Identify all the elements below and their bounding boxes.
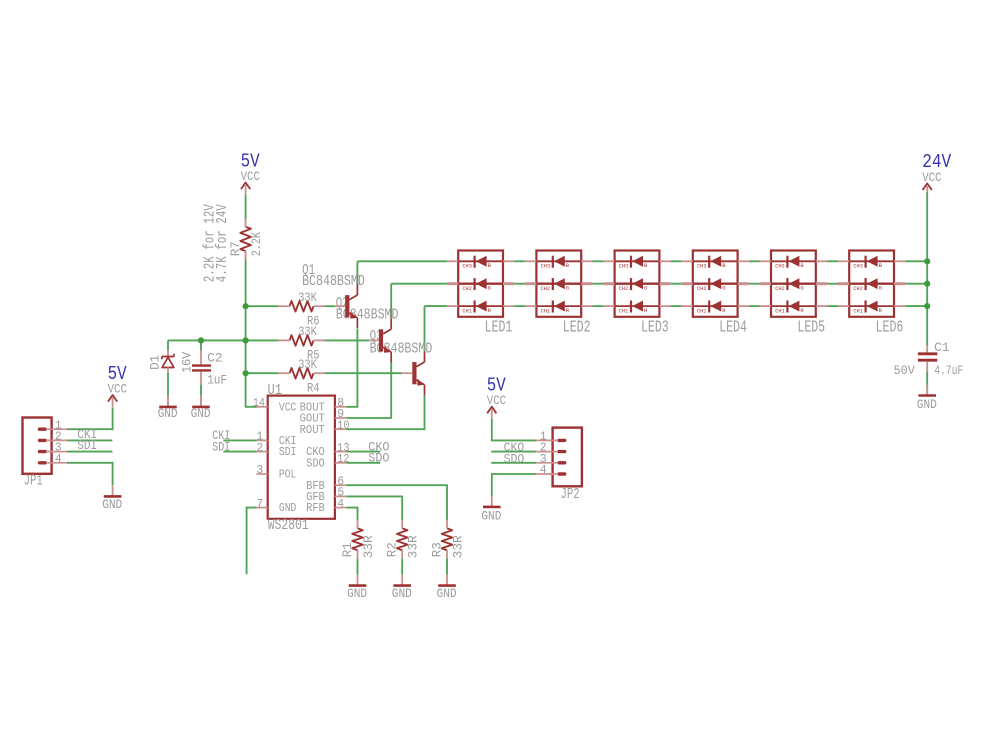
svg-text:C1: C1 [934, 340, 950, 355]
svg-text:R2: R2 [385, 542, 400, 557]
svg-text:CH1: CH1 [775, 307, 785, 314]
svg-text:7: 7 [256, 498, 263, 511]
svg-text:CH3: CH3 [853, 263, 863, 270]
svg-text:4.7uF: 4.7uF [934, 363, 963, 378]
svg-text:CH2: CH2 [462, 285, 472, 292]
svg-text:4: 4 [540, 464, 547, 477]
svg-text:16V: 16V [180, 351, 195, 373]
svg-text:3: 3 [256, 464, 263, 477]
svg-text:JP2: JP2 [561, 485, 580, 503]
svg-text:4: 4 [55, 453, 62, 466]
svg-text:LED5: LED5 [797, 318, 825, 337]
svg-text:U1: U1 [268, 381, 283, 399]
svg-text:R3: R3 [429, 542, 444, 557]
svg-text:33R: 33R [406, 535, 421, 558]
svg-text:CH1: CH1 [853, 307, 863, 314]
svg-text:GND: GND [437, 586, 457, 601]
svg-text:VCC: VCC [279, 400, 296, 414]
svg-text:33R: 33R [361, 535, 376, 558]
svg-text:CH2: CH2 [697, 285, 707, 292]
svg-text:CH1: CH1 [619, 307, 629, 314]
svg-text:LED6: LED6 [876, 318, 904, 337]
svg-text:GND: GND [481, 508, 501, 523]
svg-text:4: 4 [337, 498, 344, 511]
svg-text:CH3: CH3 [697, 263, 707, 270]
svg-text:CH1: CH1 [697, 307, 707, 314]
svg-text:33R: 33R [451, 535, 466, 558]
svg-text:2.2K: 2.2K [249, 232, 264, 256]
svg-text:SDO: SDO [306, 456, 325, 470]
svg-text:RFB: RFB [306, 501, 325, 515]
svg-text:CH3: CH3 [775, 263, 785, 270]
svg-text:SDI: SDI [212, 440, 230, 455]
svg-text:CH2: CH2 [541, 285, 551, 292]
svg-text:VCC: VCC [487, 393, 507, 408]
svg-text:CH1: CH1 [462, 307, 472, 314]
svg-text:50V: 50V [894, 363, 916, 378]
svg-text:GND: GND [917, 397, 937, 412]
svg-text:GND: GND [392, 586, 412, 601]
svg-text:WS2801: WS2801 [268, 516, 309, 534]
svg-text:VCC: VCC [108, 381, 128, 396]
svg-text:CH3: CH3 [462, 263, 472, 270]
svg-text:ROUT: ROUT [300, 423, 325, 437]
svg-text:SDO: SDO [368, 450, 389, 465]
svg-text:GND: GND [158, 406, 178, 421]
svg-text:CH3: CH3 [541, 263, 551, 270]
svg-text:4.7K for 24V: 4.7K for 24V [214, 204, 231, 282]
svg-text:SDI: SDI [279, 445, 296, 459]
svg-text:CH2: CH2 [619, 285, 629, 292]
svg-text:CH2: CH2 [853, 285, 863, 292]
svg-text:POL: POL [279, 468, 296, 482]
svg-text:1uF: 1uF [207, 373, 227, 388]
svg-text:BC848BSMD: BC848BSMD [302, 272, 365, 290]
svg-text:CH2: CH2 [775, 285, 785, 292]
svg-text:LED4: LED4 [719, 318, 747, 337]
svg-text:SDI: SDI [77, 438, 97, 453]
svg-text:33K: 33K [298, 357, 317, 372]
svg-text:LED1: LED1 [485, 318, 513, 337]
svg-text:GND: GND [347, 586, 367, 601]
svg-text:LED2: LED2 [563, 318, 591, 337]
svg-text:GND: GND [102, 497, 122, 512]
svg-text:LED3: LED3 [641, 318, 669, 337]
svg-text:R1: R1 [340, 542, 355, 557]
svg-text:VCC: VCC [241, 169, 261, 184]
svg-text:SDO: SDO [504, 452, 525, 467]
svg-text:12: 12 [337, 453, 349, 466]
svg-text:JP1: JP1 [24, 471, 43, 489]
svg-text:CH1: CH1 [541, 307, 551, 314]
svg-text:GND: GND [191, 406, 211, 421]
svg-text:33K: 33K [298, 324, 317, 339]
svg-text:C2: C2 [207, 350, 223, 365]
svg-text:14: 14 [253, 397, 265, 410]
svg-text:10: 10 [337, 419, 349, 432]
svg-text:R4: R4 [307, 380, 320, 395]
svg-text:GND: GND [279, 501, 296, 515]
svg-text:2: 2 [256, 442, 263, 455]
svg-text:VCC: VCC [922, 170, 942, 185]
svg-text:33K: 33K [298, 290, 317, 305]
svg-text:CH3: CH3 [619, 263, 629, 270]
svg-text:D1: D1 [148, 355, 163, 370]
